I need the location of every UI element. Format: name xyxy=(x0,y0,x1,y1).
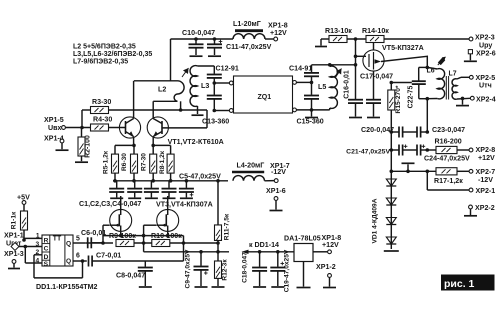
svg-text:C14-91: C14-91 xyxy=(289,65,312,73)
svg-text:L7: L7 xyxy=(449,71,457,78)
svg-text:DA1-78L05: DA1-78L05 xyxy=(284,235,321,243)
svg-text:VD1 4-КД409А: VD1 4-КД409А xyxy=(371,198,378,243)
svg-text:C21-47,0x25V: C21-47,0x25V xyxy=(346,149,390,156)
svg-text:Uвх: Uвх xyxy=(48,124,61,132)
svg-text:C18-0,047: C18-0,047 xyxy=(242,252,249,283)
svg-text:C8-0,047: C8-0,047 xyxy=(116,272,145,280)
svg-text:C22-75: C22-75 xyxy=(408,86,415,109)
svg-text:R: R xyxy=(44,237,49,244)
svg-text:L1-20мГ: L1-20мГ xyxy=(233,20,261,28)
svg-text:XP2-4: XP2-4 xyxy=(476,95,496,103)
svg-text:R15-270*: R15-270* xyxy=(395,85,402,113)
svg-text:+12V: +12V xyxy=(322,241,339,249)
svg-text:L2: L2 xyxy=(158,86,166,94)
svg-text:XP1-2: XP1-2 xyxy=(316,263,336,271)
svg-text:ZQ1: ZQ1 xyxy=(258,94,272,101)
svg-text:к DD1-14: к DD1-14 xyxy=(249,241,279,249)
svg-text:Uтч: Uтч xyxy=(479,82,492,90)
svg-text:R8-1,2к: R8-1,2к xyxy=(159,150,166,174)
svg-text:VT5-КП327А: VT5-КП327А xyxy=(382,44,424,52)
svg-text:R1-1к: R1-1к xyxy=(11,211,18,229)
svg-text:C11-47,0x25V: C11-47,0x25V xyxy=(226,43,272,51)
svg-text:R17-1,2к: R17-1,2к xyxy=(434,177,463,185)
svg-text:R13-10к: R13-10к xyxy=(325,27,352,35)
svg-text:рис. 1: рис. 1 xyxy=(444,278,475,290)
svg-text:-12V: -12V xyxy=(478,176,493,184)
svg-text:C20-0,047: C20-0,047 xyxy=(361,126,394,134)
svg-text:-12V: -12V xyxy=(271,168,286,176)
svg-text:+12V: +12V xyxy=(478,154,495,162)
svg-text:XP2-8: XP2-8 xyxy=(476,146,496,154)
svg-text:L3,L5,L6-32/6ПЭВ2-0,35: L3,L5,L6-32/6ПЭВ2-0,35 xyxy=(73,51,152,58)
svg-text:XP1-1: XP1-1 xyxy=(4,232,24,240)
svg-text:L2 5+5/6ПЭВ2-0,35: L2 5+5/6ПЭВ2-0,35 xyxy=(73,44,136,51)
svg-text:C: C xyxy=(44,246,49,253)
svg-text:XP1-6: XP1-6 xyxy=(266,187,286,195)
svg-text:XP1-5: XP1-5 xyxy=(44,116,64,124)
svg-text:R3-30: R3-30 xyxy=(92,98,111,106)
svg-text:R11-7,5к: R11-7,5к xyxy=(224,213,231,240)
svg-text:C10-0,047: C10-0,047 xyxy=(182,29,215,37)
svg-text:VT1,VT2-КТ610А: VT1,VT2-КТ610А xyxy=(168,138,224,146)
svg-text:C24-47,0x25V: C24-47,0x25V xyxy=(424,155,470,163)
svg-text:Uру: Uру xyxy=(479,42,492,50)
svg-text:D: D xyxy=(44,254,49,261)
svg-text:R6-30: R6-30 xyxy=(121,153,128,171)
svg-text:XP2-7: XP2-7 xyxy=(476,168,496,176)
svg-text:5: 5 xyxy=(76,235,80,242)
svg-text:XP2-3: XP2-3 xyxy=(475,34,495,42)
svg-text:6: 6 xyxy=(76,252,80,259)
svg-text:XP2-1: XP2-1 xyxy=(476,187,496,195)
svg-text:L5: L5 xyxy=(318,83,326,91)
svg-text:L7-9/6ПЭВ2-0,35: L7-9/6ПЭВ2-0,35 xyxy=(73,59,128,66)
svg-text:Q: Q xyxy=(66,258,71,265)
svg-text:C17-0,047: C17-0,047 xyxy=(360,73,393,81)
svg-text:C1,C2,C3,C4-0,047: C1,C2,C3,C4-0,047 xyxy=(79,200,141,208)
svg-text:L4-20мГ: L4-20мГ xyxy=(237,162,265,170)
svg-text:XP1-3: XP1-3 xyxy=(4,250,24,258)
svg-text:L3: L3 xyxy=(201,82,209,90)
svg-text:C6-0,01: C6-0,01 xyxy=(81,229,106,237)
svg-text:R9-100к: R9-100к xyxy=(109,232,136,240)
svg-text:C13-360: C13-360 xyxy=(202,118,229,126)
svg-text:TT: TT xyxy=(53,236,62,243)
svg-text:Q: Q xyxy=(66,240,71,247)
svg-text:C23-0,047: C23-0,047 xyxy=(432,126,465,134)
svg-text:C9-47,0x25V: C9-47,0x25V xyxy=(185,249,192,288)
svg-text:C12-91: C12-91 xyxy=(216,65,239,73)
svg-text:C15-360: C15-360 xyxy=(297,118,324,126)
svg-text:R14-10к: R14-10к xyxy=(362,27,389,35)
svg-text:R4-30: R4-30 xyxy=(93,116,112,124)
svg-text:XP2-2: XP2-2 xyxy=(475,204,495,212)
svg-text:S: S xyxy=(44,261,49,268)
svg-text:C19-47,0x25V: C19-47,0x25V xyxy=(284,249,291,292)
svg-text:C5-47,0x25V: C5-47,0x25V xyxy=(179,172,221,180)
svg-text:R5-1,2к: R5-1,2к xyxy=(103,150,110,174)
svg-text:DD1.1-КР1554ТМ2: DD1.1-КР1554ТМ2 xyxy=(36,283,98,291)
svg-text:C7-0,01: C7-0,01 xyxy=(96,252,121,260)
svg-text:R16-200: R16-200 xyxy=(435,137,462,145)
svg-text:C16-0,01: C16-0,01 xyxy=(343,70,350,99)
svg-text:VT3,VT4-КП307А: VT3,VT4-КП307А xyxy=(156,201,213,209)
svg-text:R2-100: R2-100 xyxy=(85,135,92,158)
svg-text:XP2-6: XP2-6 xyxy=(476,50,496,58)
svg-text:R12-3к: R12-3к xyxy=(222,259,229,281)
svg-text:R10-100к: R10-100к xyxy=(151,232,182,240)
svg-text:+12V: +12V xyxy=(270,29,287,37)
svg-text:L6: L6 xyxy=(427,67,435,74)
svg-text:R7-30: R7-30 xyxy=(141,153,148,171)
